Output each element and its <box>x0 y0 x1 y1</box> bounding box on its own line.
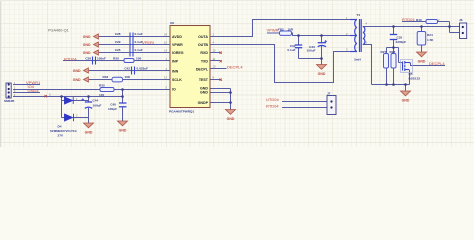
svg-text:GND: GND <box>83 35 91 39</box>
svg-text:SZMMBZ27VCLT1G: SZMMBZ27VCLT1G <box>50 129 78 133</box>
svg-text:GND: GND <box>83 43 91 47</box>
svg-text:RTD04: RTD04 <box>64 56 77 61</box>
svg-text:GND: GND <box>227 117 235 121</box>
svg-text:2200pF: 2200pF <box>396 40 407 44</box>
svg-text:100: 100 <box>136 57 141 61</box>
svg-text:OUTA: OUTA <box>198 35 208 39</box>
svg-text:C40: C40 <box>110 103 116 107</box>
svg-text:27V: 27V <box>58 134 64 138</box>
svg-text:100nF: 100nF <box>97 57 106 61</box>
svg-text:GND: GND <box>402 99 410 103</box>
svg-text:100pF: 100pF <box>108 107 117 111</box>
svg-text:GND: GND <box>73 78 81 82</box>
svg-text:J6: J6 <box>459 18 463 22</box>
svg-text:10: 10 <box>213 49 216 53</box>
svg-text:R30: R30 <box>113 57 119 61</box>
svg-text:IO: IO <box>172 88 176 92</box>
svg-text:R24: R24 <box>427 33 433 37</box>
svg-text:0.1uF: 0.1uF <box>135 32 143 36</box>
svg-text:C29: C29 <box>115 40 121 44</box>
svg-text:160uF: 160uF <box>93 104 102 108</box>
svg-text:RXD: RXD <box>200 51 208 55</box>
svg-text:TEST: TEST <box>199 78 209 82</box>
svg-text:15: 15 <box>164 41 167 45</box>
svg-text:UTD04: UTD04 <box>266 97 279 102</box>
svg-text:C35: C35 <box>397 36 403 40</box>
svg-text:GND: GND <box>83 51 91 55</box>
svg-text:RTD04: RTD04 <box>402 17 415 22</box>
svg-text:C26: C26 <box>115 48 121 52</box>
svg-text:R16: R16 <box>416 18 422 22</box>
svg-text:INP: INP <box>172 60 179 64</box>
svg-text:R28: R28 <box>390 50 396 54</box>
svg-text:14: 14 <box>164 49 167 53</box>
svg-text:13: 13 <box>213 65 216 69</box>
svg-text:VPERI: VPERI <box>142 40 154 45</box>
svg-text:D4: D4 <box>58 125 62 129</box>
svg-text:C28: C28 <box>115 32 121 36</box>
svg-text:GND: GND <box>85 131 93 135</box>
svg-text:INN: INN <box>172 70 179 74</box>
svg-text:T4: T4 <box>357 13 361 17</box>
svg-text:1.5K: 1.5K <box>427 38 434 42</box>
svg-text:GND: GND <box>119 129 127 133</box>
svg-text:0.033uF: 0.033uF <box>137 67 149 71</box>
svg-text:R27: R27 <box>381 50 387 54</box>
svg-text:0.1uF: 0.1uF <box>287 48 295 52</box>
svg-text:TXD: TXD <box>201 60 209 64</box>
svg-text:C44: C44 <box>93 99 99 103</box>
svg-text:OUTB: OUTB <box>198 43 209 47</box>
svg-text:10R: 10R <box>288 27 294 31</box>
svg-text:R35: R35 <box>99 84 105 88</box>
svg-text:R33: R33 <box>103 75 109 79</box>
svg-text:AVDD: AVDD <box>172 35 182 39</box>
svg-text:100uF: 100uF <box>307 49 316 53</box>
svg-text:24: 24 <box>164 33 167 37</box>
svg-text:C38: C38 <box>85 57 91 61</box>
svg-text:GND: GND <box>200 90 208 94</box>
svg-text:GND: GND <box>318 72 326 76</box>
svg-text:DECPL: DECPL <box>196 68 209 72</box>
svg-text:C42: C42 <box>124 67 130 71</box>
svg-text:PGA460TPWRQ1: PGA460TPWRQ1 <box>169 110 194 114</box>
svg-text:GND: GND <box>73 69 81 73</box>
svg-text:3mH: 3mH <box>354 58 361 62</box>
svg-text:100: 100 <box>99 93 104 97</box>
svg-text:PGA460-Q1: PGA460-Q1 <box>48 29 69 33</box>
svg-text:U8: U8 <box>170 21 174 25</box>
svg-text:Q5: Q5 <box>409 72 413 76</box>
svg-text:BSS123: BSS123 <box>409 77 421 81</box>
svg-text:12: 12 <box>164 76 167 80</box>
svg-text:RTD04: RTD04 <box>266 104 279 109</box>
svg-text:DECPL4: DECPL4 <box>429 61 445 66</box>
svg-text:FB2: FB2 <box>278 27 284 31</box>
svg-text:SM04B: SM04B <box>4 99 15 103</box>
svg-text:0.1uF: 0.1uF <box>135 48 143 52</box>
svg-text:DECPL4: DECPL4 <box>227 65 243 70</box>
svg-text:10K: 10K <box>125 75 131 79</box>
svg-text:VPWR: VPWR <box>172 43 183 47</box>
svg-text:GNDP: GNDP <box>198 101 209 105</box>
svg-text:SCLK: SCLK <box>172 78 182 82</box>
svg-text:GND: GND <box>418 60 426 64</box>
svg-text:GND4: GND4 <box>28 88 40 93</box>
svg-text:VPWR: VPWR <box>267 27 279 32</box>
svg-text:J7: J7 <box>327 92 331 96</box>
svg-text:IOREG: IOREG <box>172 51 184 55</box>
